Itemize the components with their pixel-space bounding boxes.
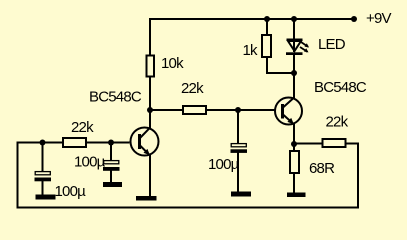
svg-text:LED: LED (318, 36, 346, 53)
resistor 22k mid (183, 106, 206, 114)
wire: C1 bottom lead (42, 181, 44, 195)
svg-text:100µ: 100µ (74, 154, 106, 171)
LED D1 (286, 39, 309, 56)
ground 68R (287, 193, 306, 198)
svg-text:100µ: 100µ (55, 183, 87, 200)
resistor 1k (262, 35, 271, 57)
node: Q2 emitter junction (291, 141, 297, 147)
wire: C2 top lead (110, 143, 112, 161)
svg-text:1k: 1k (243, 42, 259, 59)
wire: 10k top lead (149, 18, 151, 56)
node: LED cathode junction (291, 70, 297, 76)
wire: Q1 collector lead (149, 110, 151, 128)
wire: 68R top lead (293, 144, 295, 152)
wire: LED anode lead (293, 19, 295, 52)
svg-text:22k: 22k (326, 114, 349, 131)
ground C3 (231, 192, 251, 197)
resistor 22k left (63, 138, 86, 147)
capacitor C1 100u (35, 172, 52, 182)
svg-text:22k: 22k (71, 119, 94, 136)
svg-text:BC548C: BC548C (89, 89, 142, 106)
wire: emitter node to 22k right (294, 143, 322, 145)
node: Q1 collector junction (147, 107, 153, 113)
transistor Q1 BC548C (131, 128, 159, 156)
wire: 22k mid to Q2 base (206, 109, 275, 111)
wire: collector node to 22k mid (150, 109, 183, 111)
wire: feedback loop right-bottom-left (18, 143, 359, 208)
wire: 10k bottom lead (149, 77, 151, 110)
svg-text:10k: 10k (161, 55, 184, 72)
wire: C2 bottom lead (110, 171, 112, 183)
wire: C3 top lead (237, 110, 239, 144)
capacitor C3 100u (231, 144, 248, 153)
wire: +9V top rail (150, 18, 354, 20)
wire: 68R bottom lead (293, 173, 295, 193)
wire: 1k bottom lead to LED cathode node (267, 57, 294, 74)
svg-text:22k: 22k (181, 80, 204, 97)
node: C3 top junction (235, 107, 241, 113)
ground C2 (103, 182, 122, 187)
transistor Q2 BC548C (275, 98, 302, 125)
wire: C3 bottom lead (237, 153, 239, 193)
capacitor C2 100u (103, 161, 120, 171)
svg-text:+9V: +9V (366, 10, 392, 27)
resistor 10k (147, 56, 155, 77)
wire: C1 top lead (42, 143, 44, 172)
svg-text:BC548C: BC548C (314, 79, 367, 96)
ground C1 (36, 195, 56, 200)
wire: Q1 emitter lead (149, 155, 151, 196)
node: LED anode junction (291, 16, 297, 22)
ground Q1 (136, 196, 157, 201)
resistor 22k right (323, 139, 346, 147)
node: C2 top junction (108, 140, 114, 146)
wire: Q2 emitter lead (293, 124, 295, 144)
svg-text:68R: 68R (309, 160, 335, 177)
resistor 68R (290, 151, 299, 173)
wire: 1k top lead (266, 19, 268, 36)
wire: LED cathode to Q2 collector (293, 55, 295, 98)
svg-text:100µ: 100µ (208, 156, 240, 173)
node: +9V terminal (351, 16, 357, 22)
node: 1k top junction (264, 16, 270, 22)
node: C1 top junction (40, 140, 46, 146)
